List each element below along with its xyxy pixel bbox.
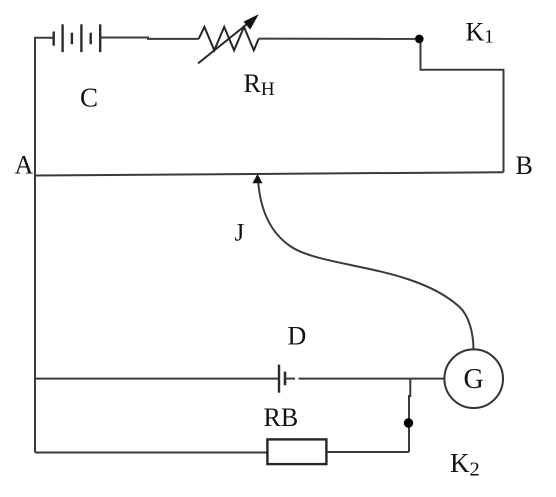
wire rheostat to K1 node	[259, 38, 420, 40]
resistance box RB rectangle	[267, 439, 326, 464]
svg-text:C: C	[80, 83, 98, 113]
battery C plate long 1	[61, 24, 63, 52]
wire bottom row left to RB	[35, 452, 267, 454]
svg-text:J: J	[235, 220, 245, 247]
galvanometer G circle	[444, 349, 503, 408]
battery C plate short terminal	[53, 32, 55, 46]
rheostat RH zigzag	[199, 27, 259, 50]
cell D short plate	[284, 372, 287, 386]
wire left vertical A-branch	[34, 38, 36, 453]
battery C plate long 3	[99, 24, 101, 52]
battery C plate short 2	[71, 33, 73, 45]
wire battery to rheostat	[100, 38, 198, 39]
cell D long plate	[278, 365, 280, 393]
svg-text:RH: RH	[244, 69, 275, 100]
svg-text:B: B	[516, 151, 533, 180]
battery C plate long 2	[80, 24, 82, 52]
rheostat RH arrowhead	[244, 14, 259, 29]
svg-text:K1: K1	[466, 18, 494, 48]
wire branch down to K2 row	[409, 379, 410, 452]
wire K1 step down and right side	[421, 39, 504, 172]
wire RB to branch	[326, 451, 409, 453]
junction dot on K2 branch	[404, 418, 413, 427]
svg-text:A: A	[15, 151, 34, 180]
svg-text:K2: K2	[450, 448, 480, 481]
junction dot at K1	[415, 35, 424, 44]
wire D row left segment	[35, 378, 279, 380]
wire top from corner to battery	[34, 37, 54, 39]
battery C plate short 3	[89, 33, 91, 45]
potentiometer wire A to B	[35, 172, 504, 175]
jockey J arrowhead	[252, 174, 262, 183]
svg-text:RB: RB	[264, 403, 299, 432]
rheostat RH arrow shaft	[198, 23, 249, 64]
svg-text:D: D	[288, 322, 307, 351]
jockey J curved lead to galvanometer	[258, 179, 474, 349]
svg-text:G: G	[464, 364, 484, 395]
wire D row right segment to galvanometer	[285, 378, 295, 380]
